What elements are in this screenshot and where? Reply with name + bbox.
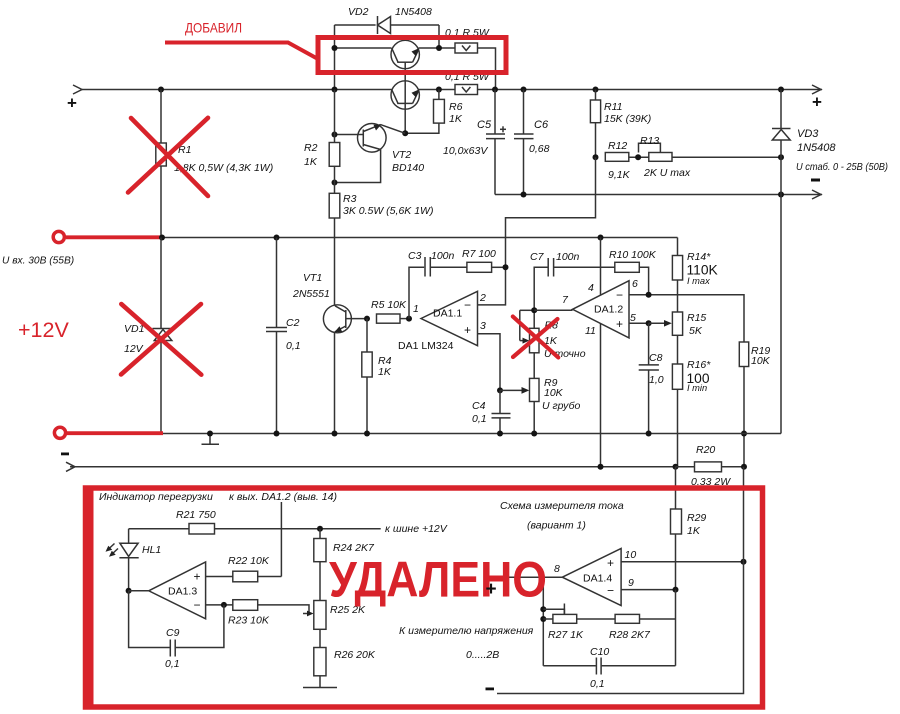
svg-text:R27 1K: R27 1K: [548, 629, 584, 641]
resistor R1 (crossed out): [156, 90, 167, 238]
svg-text:R20: R20: [696, 444, 715, 456]
junction x=543.3 y=609.3: [540, 606, 546, 612]
resistor R21: [189, 524, 215, 535]
capacitor C5: [486, 90, 506, 195]
resistor R5: [377, 314, 410, 323]
svg-text:C10: C10: [590, 646, 609, 658]
svg-text:к шине +12V: к шине +12V: [385, 523, 448, 535]
capacitor C2: [266, 238, 287, 434]
svg-text:К измерителю напряжения: К измерителю напряжения: [399, 625, 534, 637]
wire R12-R13: [629, 156, 649, 158]
svg-text:3: 3: [480, 320, 486, 332]
svg-text:0,1: 0,1: [590, 678, 605, 690]
wire DA1.4 pin10: [621, 561, 743, 563]
junction x=505.5 y=267.3: [503, 264, 509, 270]
junction x=648.6 y=294.8: [646, 292, 652, 298]
junction x=595.5 y=157.3: [593, 154, 599, 160]
diode VD2: [335, 16, 440, 90]
svg-text:R16*: R16*: [687, 359, 711, 371]
svg-text:0,1: 0,1: [472, 413, 487, 425]
svg-text:1K: 1K: [304, 156, 318, 168]
junction x=638.1 y=157.3: [635, 154, 641, 160]
junction at 334.5,48: [332, 45, 338, 51]
svg-text:DA1.2: DA1.2: [594, 304, 623, 316]
resistor R22: [233, 571, 258, 582]
junction rail x=438.9: [436, 87, 442, 93]
svg-text:R11: R11: [604, 101, 622, 113]
junction x=500 y=390.4: [497, 387, 503, 393]
svg-text:HL1: HL1: [142, 544, 161, 556]
wire +30V rail y=237.5: [162, 237, 678, 239]
junction base node x=405.2 y=133.3: [402, 130, 408, 136]
junction x=409 y=318.6: [406, 316, 412, 322]
svg-text:5: 5: [630, 312, 636, 324]
svg-text:DA1.1: DA1.1: [433, 308, 462, 320]
wire DA1.4 output to meter: [497, 576, 562, 578]
junction x=543.3 y=619: [540, 616, 546, 622]
junction rail x=161: [158, 87, 164, 93]
svg-text:I max: I max: [687, 276, 710, 286]
resistor R14: [672, 238, 682, 313]
wire DA1.2 pin6 row: [629, 295, 744, 342]
wire R23 to R25 wiper: [258, 605, 314, 617]
svg-text:8: 8: [554, 563, 560, 575]
svg-text:100n: 100n: [556, 251, 580, 263]
svg-text:−: −: [464, 298, 471, 312]
capacitor C4: [492, 390, 511, 433]
wire DA1.2 pin5: [629, 322, 649, 324]
resistor R26: [314, 629, 326, 687]
svg-text:R14*: R14*: [687, 251, 711, 263]
svg-text:9,1K: 9,1K: [608, 169, 631, 181]
svg-text:−: −: [616, 288, 623, 302]
junction x=334.5 y=182.5: [332, 180, 338, 186]
svg-text:3K 0.5W (5,6K 1W): 3K 0.5W (5,6K 1W): [343, 205, 433, 217]
wire R15 wiper arrow: [649, 320, 672, 327]
svg-text:U вх. 30В (55В): U вх. 30В (55В): [2, 256, 74, 267]
wire DA1.2 output: [534, 309, 572, 311]
resistor R16: [672, 364, 682, 467]
wire R21 to bus: [215, 528, 381, 530]
svg-text:10: 10: [625, 549, 637, 561]
svg-text:+: +: [486, 579, 497, 600]
svg-text:0.....2В: 0.....2В: [466, 649, 499, 661]
svg-text:1,8K 0,5W (4,3K 1W): 1,8K 0,5W (4,3K 1W): [174, 162, 273, 174]
trimmer R27: [543, 604, 615, 624]
junction minus rail x=523.5: [521, 192, 527, 198]
zener VD1 (crossed out): [153, 238, 174, 434]
svg-text:+: +: [616, 317, 623, 331]
junction x=648.6 y=323.3: [646, 320, 652, 326]
svg-text:−: −: [607, 584, 614, 598]
wire DA1.3 minus input: [206, 604, 233, 606]
svg-text:1,0: 1,0: [649, 374, 664, 386]
capacitor C9: [129, 591, 224, 657]
svg-text:−: −: [194, 598, 201, 612]
svg-text:R3: R3: [343, 193, 357, 205]
junction DA1.2 output x=534.2 y=310.3: [531, 307, 537, 313]
junction minus rail x=781: [778, 192, 784, 198]
svg-text:2: 2: [479, 292, 486, 304]
svg-text:R21 750: R21 750: [176, 509, 216, 521]
svg-text:+12V: +12V: [18, 318, 69, 342]
svg-text:C7: C7: [530, 251, 545, 263]
wire meter minus row: [497, 562, 744, 694]
junction rail x=595.5: [593, 87, 599, 93]
resistor 0,1R 5W (on rail): [455, 85, 478, 95]
svg-text:R26 20K: R26 20K: [334, 649, 376, 661]
junction rail x=334.5: [332, 87, 338, 93]
wire VD3 column down to common rail: [780, 195, 782, 434]
svg-text:15K (39K): 15K (39K): [604, 113, 651, 125]
capacitor C10: [543, 658, 675, 675]
wire R22 to vertical: [258, 576, 282, 578]
svg-text:1K: 1K: [378, 366, 392, 378]
junction x=334.5 y=134.5: [332, 132, 338, 138]
svg-text:DA1.3: DA1.3: [168, 586, 197, 598]
svg-text:R23 10K: R23 10K: [228, 615, 270, 627]
node input terminal (red, +30V): [53, 231, 162, 242]
svg-text:+: +: [67, 94, 77, 113]
svg-text:0,68: 0,68: [529, 143, 550, 155]
svg-text:к вых. DA1.2 (выв. 14): к вых. DA1.2 (выв. 14): [229, 491, 337, 503]
svg-text:I min: I min: [687, 383, 707, 393]
svg-text:C9: C9: [166, 627, 180, 639]
resistor R20: [676, 462, 745, 472]
svg-text:R2: R2: [304, 142, 318, 154]
wire DA1.1 pin3: [478, 334, 501, 391]
capacitor C6: [514, 90, 534, 195]
resistor R7: [467, 262, 506, 272]
svg-text:5K: 5K: [689, 325, 703, 337]
junction x=534.2 y=433.5: [531, 431, 537, 437]
wire output down column: [542, 577, 544, 666]
node minus marker left: [61, 453, 69, 456]
resistor R24: [314, 529, 326, 601]
red box deleted part: [86, 488, 763, 707]
svg-text:VD2: VD2: [348, 6, 369, 18]
svg-text:C2: C2: [286, 317, 300, 329]
svg-text:BD140: BD140: [392, 162, 424, 174]
junction rail x=495: [492, 87, 498, 93]
svg-text:R12: R12: [608, 140, 627, 152]
resistor R10: [615, 262, 649, 295]
op-amp DA1.1: [421, 291, 478, 345]
wire negative output rail y=466.8: [66, 462, 676, 471]
svg-text:9: 9: [628, 577, 634, 589]
svg-text:+: +: [464, 323, 471, 337]
svg-text:C3: C3: [408, 250, 422, 262]
red cross over VD1: [121, 304, 201, 375]
junction x=675.5 y=466.8: [673, 464, 679, 470]
svg-text:10K: 10K: [544, 387, 564, 399]
capacitor C8: [639, 323, 659, 433]
svg-text:R13: R13: [640, 135, 659, 147]
junction at 439,48: [436, 45, 442, 51]
svg-text:+: +: [607, 556, 614, 570]
svg-text:R15: R15: [687, 312, 706, 324]
junction x=600.5 y=466.8: [598, 464, 604, 470]
transistor pass T2 (on rail): [391, 81, 419, 109]
svg-text:Индикатор перегрузки: Индикатор перегрузки: [99, 491, 213, 503]
svg-text:R28 2K7: R28 2K7: [609, 629, 651, 641]
svg-text:U стаб. 0 - 25В (50В): U стаб. 0 - 25В (50В): [796, 161, 888, 173]
led HL1: [106, 529, 139, 591]
svg-text:C6: C6: [534, 119, 549, 131]
junction x=367 y=433.5: [364, 431, 370, 437]
junction x=334.5 y=433.5: [332, 431, 338, 437]
svg-text:0,1: 0,1: [165, 658, 180, 670]
transistor VT2: [335, 124, 406, 183]
svg-text:4: 4: [588, 282, 594, 294]
node minus meter marker: [486, 688, 495, 691]
junction x=276.5 y=433.5: [274, 431, 280, 437]
junction x=781 y=157.3: [778, 154, 784, 160]
svg-text:VD3: VD3: [797, 128, 819, 140]
wire R29 column to R28/C10: [675, 590, 677, 666]
junction x=500 y=433.5: [497, 431, 503, 437]
potentiometer R13: [639, 143, 673, 161]
op-amp DA1.4: [562, 548, 621, 605]
potentiometer R9: [530, 353, 540, 434]
junction x=744 y=466.8: [741, 464, 747, 470]
node minus output marker: [811, 179, 820, 182]
svg-text:+: +: [812, 93, 822, 112]
wire R13 to VD3 column: [672, 156, 781, 158]
svg-text:1K: 1K: [687, 525, 701, 537]
red cross over R1: [128, 118, 208, 196]
svg-text:+: +: [194, 570, 201, 584]
junction x=210 y=433.5: [207, 431, 213, 437]
red cross over R8: [513, 317, 559, 358]
wire DA1.3 plus input: [206, 576, 233, 578]
potentiometer R25: [314, 601, 326, 630]
resistor R11: [590, 90, 600, 158]
red box added part: [318, 38, 506, 73]
svg-text:2K U max: 2K U max: [643, 167, 691, 179]
diode VD3: [772, 90, 791, 195]
resistor R12: [605, 153, 629, 162]
svg-text:VT1: VT1: [303, 272, 322, 284]
resistor R23: [233, 600, 258, 611]
svg-text:Схема измерителя тока: Схема измерителя тока: [500, 500, 624, 512]
wire minus output rail (y=194.5): [495, 190, 822, 199]
potentiometer R8 (crossed out): [520, 310, 539, 353]
svg-text:VT2: VT2: [392, 149, 411, 161]
junction x=223.9 y=604.9: [221, 602, 227, 608]
ground symbol bottom: [303, 687, 337, 689]
junction x=744 y=433.5: [741, 431, 747, 437]
junction x=162 y=237.5: [159, 235, 165, 241]
junction x=743.5 y=561.8: [741, 559, 747, 565]
wire common rail y=433.5: [163, 433, 781, 435]
junction x=128.6 y=590.8: [126, 588, 132, 594]
wire R9 wiper arrow: [500, 387, 529, 394]
wire bypass row y=48: [335, 48, 496, 90]
wire R21 row (+12V bus): [129, 528, 189, 530]
svg-text:1N5408: 1N5408: [797, 142, 836, 154]
svg-text:1: 1: [413, 303, 419, 315]
wire from DA1.2 out label down to R22: [280, 502, 282, 577]
svg-text:10,0x63V: 10,0x63V: [443, 145, 488, 157]
junction rail x=781: [778, 87, 784, 93]
junction x=276.5 y=237.5: [274, 235, 280, 241]
svg-text:C4: C4: [472, 400, 486, 412]
wire +input rail (top, y=89.5): [73, 85, 822, 94]
potentiometer R15: [672, 312, 682, 364]
junction x=600.5 y=237.5: [598, 235, 604, 241]
resistor R6: [405, 90, 444, 134]
resistor R29: [671, 467, 682, 590]
svg-text:УДАЛЕНО: УДАЛЕНО: [329, 552, 547, 608]
svg-text:10K: 10K: [751, 355, 771, 367]
svg-text:U грубо: U грубо: [542, 400, 581, 412]
op-amp DA1.2: [573, 281, 630, 338]
svg-text:R10 100K: R10 100K: [609, 249, 657, 261]
resistor R19: [739, 342, 748, 467]
svg-text:(вариант 1): (вариант 1): [527, 520, 586, 532]
svg-text:1K: 1K: [449, 113, 463, 125]
wire DA1.4 pin9: [621, 589, 675, 591]
junction x=648.6 y=433.5: [646, 431, 652, 437]
svg-text:6: 6: [632, 278, 638, 290]
svg-text:C5: C5: [477, 119, 492, 131]
capacitor C3: [409, 257, 467, 319]
svg-text:R6: R6: [449, 101, 463, 113]
svg-text:R7 100: R7 100: [462, 248, 496, 260]
svg-text:11: 11: [585, 325, 596, 337]
junction x=320 y=528.8: [317, 526, 323, 532]
red leader line DOBAVIL: [165, 43, 318, 60]
junction rail x=523.5: [521, 87, 527, 93]
svg-text:0,1: 0,1: [286, 340, 301, 352]
svg-text:C8: C8: [649, 352, 663, 364]
svg-text:R22 10K: R22 10K: [228, 555, 270, 567]
ground symbol: [202, 434, 220, 445]
svg-text:100n: 100n: [431, 250, 455, 262]
op-amp DA1.3: [129, 562, 206, 619]
transistor VT1: [323, 305, 367, 434]
svg-text:ДОБАВИЛ: ДОБАВИЛ: [185, 20, 242, 36]
node common terminal (red): [54, 427, 163, 438]
wire LM324 power pins 4/11: [600, 238, 602, 467]
transistor VT (added pass transistor, in red box): [391, 40, 419, 68]
resistor R2: [329, 90, 340, 194]
svg-text:DA1 LM324: DA1 LM324: [398, 340, 454, 352]
svg-text:R29: R29: [687, 512, 706, 524]
svg-text:12V: 12V: [124, 343, 144, 355]
resistor R3: [329, 193, 340, 304]
resistor R28: [615, 614, 675, 623]
junction x=367 y=318.6: [364, 316, 370, 322]
wire base link of pass transistors: [404, 62, 406, 133]
svg-text:R5 10K: R5 10K: [371, 299, 407, 311]
svg-text:2N5551: 2N5551: [292, 288, 330, 300]
svg-text:1N5408: 1N5408: [395, 6, 432, 18]
wire R20 right column into box: [743, 467, 745, 562]
resistor 0.1R 5W (added): [455, 43, 478, 53]
resistor R4: [362, 319, 372, 434]
junction x=675.5 y=589.6: [673, 587, 679, 593]
wire feedback step (R11/R12 node to DA1.1 pin2): [478, 157, 596, 305]
capacitor C7: [534, 258, 615, 310]
